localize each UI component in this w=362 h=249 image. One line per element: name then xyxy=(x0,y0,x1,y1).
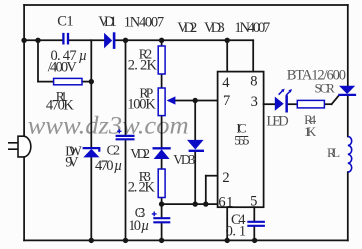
svg-text:5: 5 xyxy=(250,194,257,210)
node: bottom/C2 xyxy=(123,238,128,243)
wire: drop to IC pin 4 xyxy=(226,40,228,71)
node: bottom/pin1 xyxy=(225,238,230,243)
wire: RP to VD2 xyxy=(161,116,163,148)
wire: right border below triac to RL xyxy=(347,96,349,137)
resistor R4 xyxy=(297,100,324,108)
wire: node column x=91 bottom (DW to bottom rail) xyxy=(90,157,92,240)
triac SCR (BTA12/600) xyxy=(338,86,356,95)
wire: C4 to bottom rail xyxy=(253,226,255,240)
wire: VD3 column upper (wiper node down to VD3) xyxy=(194,101,196,141)
wire: bottom border xyxy=(24,239,348,241)
op-amp/timer IC U1 555 box xyxy=(218,72,264,208)
svg-text:VD1: VD1 xyxy=(98,14,117,30)
wire: IC pin 1 drop xyxy=(226,207,228,240)
node: rail/C2 column xyxy=(123,38,128,43)
svg-text:470K: 470K xyxy=(46,98,75,114)
wire: C2 column upper xyxy=(125,40,127,135)
svg-text:9V: 9V xyxy=(65,155,79,171)
wire: R3 to C3 xyxy=(161,198,163,218)
wire: pin 2 vertical xyxy=(205,176,207,204)
svg-text:VD3: VD3 xyxy=(173,152,195,167)
node: bottom/DW xyxy=(89,238,94,243)
svg-text:4: 4 xyxy=(222,75,230,91)
svg-text:8: 8 xyxy=(250,74,257,90)
svg-text:RL: RL xyxy=(327,145,340,160)
capacitor C2 (electrolytic) xyxy=(116,129,135,139)
wire: VD2 to R3 xyxy=(161,159,163,169)
svg-text:1K: 1K xyxy=(304,124,317,139)
wire: pin 2 lead xyxy=(206,175,218,177)
svg-text:10 µ: 10 µ xyxy=(128,218,149,234)
wire: RP wiper line to pin 7 xyxy=(169,100,218,102)
node: VD3/pin6 rail xyxy=(193,201,198,206)
svg-text:1N4007: 1N4007 xyxy=(234,20,270,36)
capacitor C4 xyxy=(247,222,265,226)
wire: R4 right lead xyxy=(324,103,331,105)
svg-text:0. 1: 0. 1 xyxy=(226,224,247,240)
diode VD3 xyxy=(187,140,204,151)
node: bottom/C3 xyxy=(159,238,164,243)
wire: R1 left lead xyxy=(38,81,54,83)
svg-text:3: 3 xyxy=(251,94,258,110)
svg-text:C1: C1 xyxy=(57,14,73,30)
wire: right border upper (to triac) xyxy=(347,5,349,86)
diode VD1 xyxy=(104,32,115,49)
node: R1/DW column xyxy=(89,79,94,84)
svg-text:2. 2K: 2. 2K xyxy=(128,180,156,196)
potentiometer RP xyxy=(158,88,165,116)
svg-text:555: 555 xyxy=(234,133,249,148)
resistor R2 xyxy=(158,46,165,74)
wire: R2 top lead xyxy=(161,40,163,46)
wire: main rail C1 to VD1 xyxy=(69,39,104,41)
svg-text:1: 1 xyxy=(226,195,233,211)
wire: left border above plug xyxy=(23,5,25,136)
svg-text:2: 2 xyxy=(222,170,229,186)
svg-text:LED: LED xyxy=(266,114,288,130)
wire: C2 column lower xyxy=(125,140,127,240)
node: rail/left border xyxy=(21,38,26,43)
svg-text:470 µ: 470 µ xyxy=(95,158,122,174)
svg-text:VD2: VD2 xyxy=(177,20,197,36)
node: rail/pin4 drop xyxy=(225,38,230,43)
svg-text:VD2: VD2 xyxy=(130,146,150,161)
wire: top border xyxy=(24,4,348,6)
svg-text:/400V: /400V xyxy=(48,60,78,76)
wire: main rail y=40 left of C1 xyxy=(24,39,62,41)
zener diode DW xyxy=(83,148,100,157)
wire: R1 right lead xyxy=(82,81,91,83)
wire: C3 to bottom rail xyxy=(161,223,163,241)
plug P (AC mains) xyxy=(8,136,31,157)
svg-text:100K: 100K xyxy=(127,97,156,113)
svg-text:6: 6 xyxy=(218,195,225,211)
resistor R3 xyxy=(158,169,165,198)
wire: pin 6 rail xyxy=(162,203,218,205)
wire: left border below plug xyxy=(23,157,25,240)
svg-text:1N4007: 1N4007 xyxy=(124,14,164,30)
capacitor C1 xyxy=(63,33,68,45)
wire: drop to IC pin 8 xyxy=(252,40,254,71)
wire: right border below RL to bottom xyxy=(347,172,349,240)
node: pin2/pin6 rail xyxy=(203,201,208,206)
wire: main rail VD1 to pin8 corner xyxy=(115,39,253,41)
svg-text:C2: C2 xyxy=(107,143,120,158)
wire: triac gate diagonal xyxy=(332,96,339,105)
node: rail/R2 column xyxy=(159,38,164,43)
svg-text:www.dz3w.com: www.dz3w.com xyxy=(28,113,189,140)
wire: R2 to RP xyxy=(161,74,163,88)
potentiometer RP wiper arrow xyxy=(167,96,176,104)
wire: IC pin 5 to C4 xyxy=(253,207,255,221)
wire: node column x=91 top (rail to DW) xyxy=(90,40,92,147)
diode VD2 xyxy=(153,148,171,159)
svg-text:SCR: SCR xyxy=(315,81,336,96)
wire: VD3 column lower (VD3 to pin6 rail) xyxy=(194,152,196,204)
capacitor C3 (electrolytic) xyxy=(152,212,171,223)
inductor RL coil xyxy=(348,137,352,173)
wire: pin 3 lead to LED xyxy=(264,103,275,105)
wire: R1 branch vertical xyxy=(37,40,39,81)
node: R3/C3/pin6 xyxy=(159,201,164,206)
svg-text:2. 2K: 2. 2K xyxy=(128,58,158,74)
node: rail/R1 branch xyxy=(35,38,40,43)
LED symbol xyxy=(275,89,292,113)
svg-text:VD3: VD3 xyxy=(204,20,225,36)
junction node dots xyxy=(21,38,257,244)
node: wiper/VD3 column xyxy=(193,98,198,103)
wire: LED to R4 xyxy=(288,103,298,105)
resistor R1 xyxy=(54,78,82,84)
svg-text:7: 7 xyxy=(223,93,230,109)
node: bottom/C4 xyxy=(252,238,257,243)
